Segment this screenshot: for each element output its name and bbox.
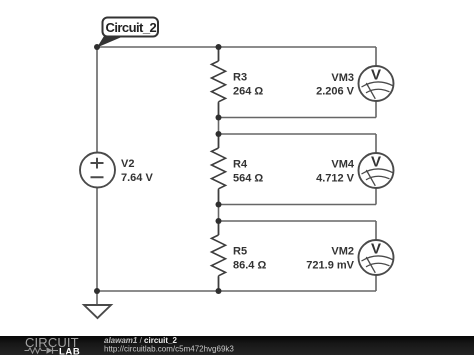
wire right rail VM3 stubs <box>375 47 377 118</box>
svg-text:VM3: VM3 <box>331 72 354 84</box>
footer bar <box>0 336 474 355</box>
resistor R4 <box>212 134 264 205</box>
wire middle rail top lead <box>218 47 220 61</box>
node junction dot top of R5 <box>216 218 222 224</box>
voltmeter VM4 <box>316 153 393 188</box>
svg-text:721.9 mV: 721.9 mV <box>306 260 354 272</box>
node junction dot top of R4 <box>216 131 222 137</box>
svg-text:V: V <box>371 67 381 84</box>
wire row1 bottom from (218.5,117.5) to (376,117.5) <box>219 117 377 119</box>
svg-text:R5: R5 <box>233 246 247 258</box>
node junction dot ground <box>94 288 100 294</box>
node label Circuit_2 flag <box>97 18 158 48</box>
svg-text:2.206 V: 2.206 V <box>316 86 355 98</box>
node junction dot bottom of R4 <box>216 202 222 208</box>
svg-text:VM4: VM4 <box>331 159 355 171</box>
svg-text:V: V <box>371 241 381 258</box>
wire right rail VM2 stubs <box>375 221 377 291</box>
wire row2 bottom from (218.5,204.5) to (376,204.5) <box>219 204 377 206</box>
node junction dot top of R3 <box>216 44 222 50</box>
wire middle rail bottom lead <box>218 277 220 291</box>
wire middle rail segment between row2 and row3 <box>218 190 220 235</box>
svg-text:R4: R4 <box>233 159 248 171</box>
node junction dot bottom of R5 <box>216 288 222 294</box>
resistor R5 <box>212 221 267 291</box>
logo resistor-diode glyph <box>25 347 59 353</box>
wire right rail VM4 stubs <box>375 134 377 205</box>
wire row2 top from (218.5,134) to (376,134) <box>219 133 377 135</box>
svg-text:LAB: LAB <box>59 347 80 355</box>
svg-text:V2: V2 <box>121 158 134 170</box>
wire left rail lower segment <box>96 188 98 292</box>
voltmeter VM2 <box>306 240 393 275</box>
node junction dot bottom of R3 <box>216 115 222 121</box>
wire row3 top from (218.5,221) to (376,221) <box>219 220 377 222</box>
voltmeter VM3 <box>316 66 393 101</box>
node A junction dot top-left <box>94 44 100 50</box>
svg-text:264 Ω: 264 Ω <box>233 86 263 98</box>
svg-text:564 Ω: 564 Ω <box>233 173 263 185</box>
resistor R3 <box>212 47 264 118</box>
ground <box>84 291 111 318</box>
svg-text:R3: R3 <box>233 72 247 84</box>
wire bottom rail from ground node to (376,291) <box>97 290 376 292</box>
svg-text:4.712 V: 4.712 V <box>316 173 355 185</box>
svg-text:VM2: VM2 <box>331 246 354 258</box>
voltage source V2 <box>80 153 153 188</box>
svg-text:V: V <box>371 154 381 171</box>
wire middle rail segment between row1 and row2 <box>218 103 220 148</box>
svg-text:7.64 V: 7.64 V <box>121 172 153 184</box>
svg-text:Circuit_2: Circuit_2 <box>106 20 157 35</box>
wire top rail from node at (97,47) to (376,47) <box>97 46 376 48</box>
wire left rail upper segment <box>96 47 98 153</box>
svg-text:http://circuitlab.com/c5m472hv: http://circuitlab.com/c5m472hvg69k3 <box>104 345 234 354</box>
svg-text:86.4 Ω: 86.4 Ω <box>233 260 266 272</box>
